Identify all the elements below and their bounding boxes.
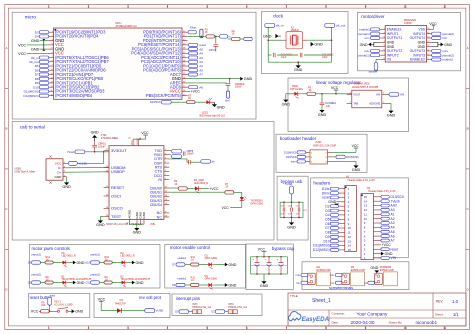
svg-text:A: A [5, 46, 7, 50]
Aref pull resistor [225, 91, 230, 102]
enable indicator D1: flag D7, resistor R11, LED D1 [172, 255, 237, 270]
header INT1 HDR-M-2.54_1x1 with flag D3 [175, 303, 212, 313]
net flag clk_in (MCU left pin) [31, 56, 49, 60]
diode D3 7440CTW [115, 299, 145, 313]
svg-text:GND: GND [31, 39, 40, 43]
net flag m1+ (L293D left) [364, 49, 380, 53]
svg-text:10K: 10K [41, 304, 46, 307]
svg-text:11: 11 [443, 326, 446, 330]
svg-text:24pF: 24pF [281, 56, 287, 59]
net flag D13/SCK (ICSP pin3) [286, 155, 306, 159]
svg-text:GND: GND [133, 231, 142, 235]
net flag A6 (MCU right pin) [188, 85, 204, 89]
svg-text:15: 15 [348, 248, 352, 252]
svg-text:mpower: mpower [369, 71, 378, 74]
svg-text:pwma(1): pwma(1) [32, 254, 42, 257]
svg-text:GND: GND [387, 113, 396, 117]
svg-text:GND: GND [294, 68, 303, 72]
section box: reset button [29, 293, 90, 317]
svg-text:m1+: m1+ [296, 274, 301, 277]
clock ground bottom [268, 55, 331, 72]
svg-text:2020-04-30: 2020-04-30 [351, 320, 375, 325]
svg-text:VCC: VCC [98, 297, 106, 301]
net flag D7 (MCU left pin) [35, 73, 49, 77]
svg-text:GND: GND [31, 48, 40, 52]
svg-text:Date:: Date: [332, 320, 339, 324]
header INT0 HDR-M-2.54_1x1 with flag D2 [211, 303, 247, 313]
net flag A4 (MCU right pin) [188, 52, 204, 56]
bypass usb ground [287, 217, 296, 229]
net flag VIN [387, 93, 404, 97]
regulator U3 LM1117MPX-5.0/NOPB [347, 82, 387, 107]
svg-text:LED-0603_R: LED-0603_R [194, 182, 209, 185]
svg-text:EasyEDA: EasyEDA [302, 316, 330, 323]
date row [332, 320, 438, 325]
net flag A6 (header H2) [381, 234, 395, 238]
svg-text:RESET: RESET [111, 185, 125, 190]
header H1 GND pin [328, 200, 339, 206]
bypass cap ground [260, 274, 269, 288]
svg-text:niconoob1: niconoob1 [416, 320, 438, 325]
svg-text:1K: 1K [191, 279, 194, 282]
ICSP GND wire [333, 161, 361, 172]
Sheet 1/1 [435, 312, 459, 317]
svg-text:TITLE:: TITLE: [290, 294, 299, 298]
section box: motordriver [358, 13, 461, 71]
VCC source for protection diode [98, 297, 117, 310]
net flag mpower (VS pin) [369, 60, 381, 74]
svg-text:rev volt prot: rev volt prot [139, 295, 162, 300]
svg-text:motor enable control: motor enable control [170, 245, 210, 250]
AREF capacitor C8AREF 100nF [188, 79, 245, 91]
svg-text:HDR-M-2.54_1x1: HDR-M-2.54_1x1 [192, 306, 212, 309]
section box: bypass cap [246, 244, 295, 290]
svg-text:EXtxs: EXtxs [190, 26, 197, 29]
net flag reset (MCU right pin) [188, 43, 206, 47]
svg-text:D12(MISO): D12(MISO) [284, 151, 297, 154]
FTDI VCC VCCIO supply [128, 131, 149, 146]
svg-text:D11(MOSI): D11(MOSI) [346, 156, 359, 159]
net flag D12(MISO) (ICSP pin1) [284, 151, 306, 155]
svg-text:0603Yellow light 90-110: 0603Yellow light 90-110 [199, 115, 225, 118]
svg-text:VUSB: VUSB [156, 309, 163, 313]
net flag A1 (header H2) [381, 212, 395, 216]
net flag m2+ (L293D right) [432, 49, 449, 53]
svg-text:m1-: m1- [365, 36, 370, 40]
svg-text:1/1: 1/1 [453, 312, 459, 317]
svg-text:1K: 1K [188, 97, 191, 100]
net flag m2- (L293D right) [432, 36, 448, 40]
svg-text:D12(MISO): D12(MISO) [313, 248, 330, 252]
MCU GND wire to ground (right) [188, 77, 253, 81]
net flag D10 (header H1) [324, 239, 339, 243]
svg-text:K2-3.6-6.1_SMD: K2-3.6-6.1_SMD [55, 304, 73, 307]
net flag D6 (MCU left pin) [35, 68, 49, 72]
svg-text:GND: GND [287, 225, 296, 229]
MCU pin names and numbers [48, 30, 188, 98]
section box: screw terminals [302, 262, 409, 290]
net flag A2 (header H2) [381, 217, 395, 221]
svg-text:VIN: VIN [400, 94, 404, 97]
svg-text:PB5(SCK/PCINT5): PB5(SCK/PCINT5) [146, 93, 182, 98]
svg-text:screwterminals: screwterminals [329, 286, 353, 290]
net flag A7 (MCU right pin) [188, 73, 204, 77]
EasyEDA logo [288, 311, 329, 322]
svg-text:m2-: m2- [330, 282, 334, 285]
motor driver U2 L293D [385, 18, 426, 62]
svg-text:OSCO: OSCO [111, 206, 123, 211]
svg-text:LED-0603_R: LED-0603_R [62, 255, 76, 258]
svg-text:100nF: 100nF [187, 153, 195, 156]
regulator ground [387, 103, 396, 117]
svg-text:GND: GND [77, 281, 85, 285]
screw terminal POWERM EX500V-02P [364, 266, 397, 286]
svg-text:VCCIO: VCCIO [137, 138, 139, 145]
net flag D11(MOSI) (ICSP pin4) [333, 155, 359, 159]
net flag D4 (header H1) [325, 213, 338, 217]
svg-text:OPH-G36G: OPH-G36G [250, 202, 263, 205]
net flag pwmb(2) (L293D right) [432, 53, 454, 57]
svg-text:1.0: 1.0 [452, 299, 459, 304]
net flag A1 (MCU right pin) [188, 64, 204, 68]
svg-text:OSCI: OSCI [111, 193, 121, 198]
ground symbol left of crystal [263, 34, 281, 39]
svg-text:.8-BL: .8-BL [150, 223, 156, 226]
svg-text:D-: D- [58, 166, 61, 170]
section box: clock [262, 12, 349, 74]
dtr series capacitor and flag [169, 159, 214, 165]
net flag 7Vusb [67, 150, 109, 154]
section box: rev volt prot [94, 293, 170, 317]
pwm indicator D2 (row1 right): flag D10, resistor R10, LED D2 [85, 252, 143, 267]
MCU left GND/VCC connections [18, 39, 47, 56]
section box: bootloader header [276, 134, 367, 172]
pwm indicator B2 (row2 right): flag D11, resistor R9, LED B2 [86, 274, 151, 288]
svg-text:m1-: m1- [296, 282, 300, 285]
svg-text:TEST: TEST [111, 214, 122, 219]
svg-text:B: B [5, 127, 7, 131]
svg-text:GND: GND [260, 284, 269, 288]
net flag reset (header H1) [322, 196, 338, 200]
title text Sheet_1 [290, 294, 331, 304]
svg-text:motordriver: motordriver [361, 14, 385, 19]
svg-text:GND: GND [136, 281, 144, 285]
ICSP VCC wire [333, 144, 360, 152]
svg-text:headers: headers [313, 180, 330, 185]
svg-text:A7: A7 [391, 239, 395, 243]
LED1 indicator circuit with resistor R2 [150, 94, 225, 117]
USB data wires [67, 168, 109, 173]
resistor R9 10K with VCC [31, 302, 55, 314]
section box: linear voltage regulator [288, 78, 409, 132]
net flag D3 (MCU left pin) [35, 30, 49, 34]
svg-text:reset: reset [391, 247, 398, 251]
net flag A0 (header H2) [381, 208, 395, 212]
net flag A3 (header H2) [381, 221, 395, 225]
enable indicator D4: flag D8, resistor R12, LED D4 [172, 275, 237, 290]
svg-text:AGND: AGND [128, 209, 132, 219]
svg-text:REV:: REV: [436, 300, 443, 304]
MCU U1 ATMEGA328P-AU [54, 21, 183, 100]
header H2 Header-Male-2.54_1x15 [361, 187, 396, 260]
net flag pwma(1) (L293D left) [358, 32, 380, 36]
net flag D9 (header H1) [325, 235, 338, 239]
power LED PWR OPH-G36G [290, 85, 303, 99]
svg-text:LINEAR_REG: LINEAR_REG [354, 82, 370, 85]
net flag A7 (header H2) [381, 239, 395, 243]
pwm indicator B1 (row2 left): flag D3, resistor R8, LED B1 [28, 274, 92, 288]
net flag 7Vusb (header H2) [381, 199, 400, 203]
VCC feed into regulator [331, 86, 352, 95]
svg-text:enable1: enable1 [178, 257, 187, 260]
svg-text:A7: A7 [199, 73, 203, 77]
capacitor CCLOCK1 24pF [274, 53, 293, 59]
svg-text:reset: reset [291, 160, 297, 163]
ground left of power LED [282, 94, 295, 107]
svg-text:Header-Male-2.54_1x15: Header-Male-2.54_1x15 [368, 190, 396, 193]
svg-text:+VCC: +VCC [191, 90, 201, 94]
svg-text:reset: reset [50, 295, 56, 298]
svg-text:VCC: VCC [141, 131, 149, 135]
svg-text:bypass cap: bypass cap [272, 246, 295, 251]
net flag D6 (header H1) [325, 222, 338, 226]
svg-text:GND: GND [217, 106, 225, 110]
net flag VIN (header H2) [381, 256, 397, 260]
net flag D2 (header H1) [325, 204, 338, 208]
section box: motor enable control [165, 244, 246, 288]
svg-text:D13/SCK: D13/SCK [150, 100, 161, 104]
svg-text:usb to serial: usb to serial [20, 125, 45, 130]
svg-text:ATMEGA328P-AU: ATMEGA328P-AU [116, 24, 137, 28]
svg-text:GND: GND [136, 261, 144, 265]
svg-text:clock: clock [273, 13, 284, 18]
svg-text:1K: 1K [309, 89, 312, 92]
svg-text:reset: reset [322, 196, 329, 200]
net flag D1/tx (header H1) [322, 187, 339, 191]
net flag D3 (header H1) [325, 209, 338, 213]
svg-text:VCC: VCC [55, 161, 62, 165]
header H2 +VCC pin [382, 243, 392, 247]
L293D left ground [360, 42, 381, 46]
net flag D13/SCK (header H2) [381, 195, 405, 199]
REV 1.0 [436, 299, 459, 304]
svg-text:EX500V-02P: EX500V-02P [317, 269, 332, 272]
svg-text:enable2: enable2 [178, 277, 187, 280]
svg-text:dtr: dtr [212, 159, 215, 163]
svg-text:LM1117MPX-5.0/NOPB: LM1117MPX-5.0/NOPB [352, 86, 379, 89]
section box: interrupt pins [172, 294, 262, 316]
svg-text:NC: NC [157, 215, 163, 219]
svg-text:pwmb(2): pwmb(2) [91, 274, 101, 277]
svg-text:DKVrs: DKVrs [209, 49, 217, 52]
company row [332, 311, 388, 316]
svg-text:CU: CU [304, 210, 308, 212]
net flag m1- (L293D left) [365, 36, 380, 40]
svg-text:FT232RL-REEL: FT232RL-REEL [101, 137, 119, 140]
svg-text:GND: GND [282, 102, 291, 106]
reset pull-up network R3 R4 Ra and DTR cap [188, 26, 253, 52]
capacitor CLINREG 1uF [318, 93, 336, 117]
net flag D5 (MCU left pin) [35, 64, 49, 68]
capacitor CCLOCK2 24pF [300, 53, 302, 57]
svg-text:EX500V-02P: EX500V-02P [380, 269, 395, 272]
net flag D12(MISO) (header H1) [313, 248, 339, 252]
svg-text:GND: GND [75, 310, 83, 314]
net flag D11(MOSI) (MCU left pin) [24, 90, 49, 94]
svg-text:VCC: VCC [352, 144, 360, 148]
section box: usb to serial [12, 122, 274, 241]
net flag reset (header H2) [381, 247, 398, 251]
net flag A5 (MCU right pin) [188, 47, 204, 51]
resistor R5 1K [302, 87, 336, 96]
svg-text:m2+: m2+ [330, 274, 335, 277]
capacitor CBP5 100nF [183, 150, 194, 156]
svg-text:D12(MISO): D12(MISO) [23, 94, 38, 98]
svg-text:CBUS4: CBUS4 [150, 203, 162, 207]
reset button ground [72, 309, 84, 313]
svg-text:VCC: VCC [258, 248, 266, 252]
svg-text:USBDP: USBDP [111, 169, 125, 174]
svg-text:pwmb(1): pwmb(1) [358, 53, 370, 57]
net flag D4 (MCU left pin) [35, 35, 49, 39]
svg-text:1K: 1K [191, 259, 194, 262]
section box: micro [12, 12, 256, 119]
ground symbol right of crystal [311, 42, 323, 47]
net flag enable2 (L293D right) [432, 58, 454, 62]
svg-text:Drawn By:: Drawn By: [389, 320, 403, 324]
svg-text:GND: GND [314, 43, 323, 47]
bypass capacitor bank C4 C5 C6 [251, 256, 288, 275]
svg-text:TAB: TAB [353, 102, 358, 105]
USB1 ground [62, 177, 71, 189]
net flag clk_out (MCU left pin) [29, 60, 49, 64]
svg-text:Sheet_1: Sheet_1 [312, 298, 331, 304]
svg-text:GND: GND [228, 263, 236, 267]
svg-text:GND: GND [263, 35, 272, 39]
svg-text:EX500V-02P: EX500V-02P [351, 269, 366, 272]
svg-text:RI: RI [158, 178, 162, 182]
net flag pwmb(1) (L293D left) [358, 53, 380, 57]
screw terminal M1 EX500V-02P [296, 266, 332, 286]
svg-text:GND: GND [77, 261, 85, 265]
svg-text:LED-0603_R: LED-0603_R [121, 255, 135, 258]
crystal X2 16MHz [281, 25, 308, 48]
AVCC connection +VCC [188, 90, 201, 94]
FTDI ground connections [96, 217, 144, 235]
svg-text:interrupt pins: interrupt pins [176, 296, 200, 301]
tx rx net flags at FTDI [169, 149, 181, 158]
L293D right ground [432, 42, 453, 46]
svg-text:D4: D4 [35, 35, 39, 39]
svg-text:enable2: enable2 [442, 58, 453, 62]
svg-text:USB-Type A_Male: USB-Type A_Male [15, 171, 36, 174]
svg-text:D13/SCK: D13/SCK [286, 156, 297, 159]
net flag D8 (header H1) [325, 231, 338, 235]
net flag VUSB (rev volt prot) [145, 309, 163, 313]
FTDI right pins [150, 149, 170, 219]
svg-text:pwmb(1): pwmb(1) [91, 254, 101, 257]
svg-text:1K: 1K [225, 185, 228, 188]
svg-text:VIN: VIN [391, 256, 397, 260]
connector ICSP HDR-IDC-2.54-2X3P [305, 141, 337, 164]
svg-text:3V3OUT: 3V3OUT [111, 148, 127, 153]
svg-text:Header-Male-2.54_1x15: Header-Male-2.54_1x15 [348, 179, 376, 182]
header H2 GND pin [381, 252, 393, 256]
svg-text:GND: GND [318, 113, 327, 117]
svg-text:D10: D10 [85, 262, 90, 265]
L293D pin names and stubs [380, 28, 431, 62]
svg-text:1K: 1K [205, 31, 208, 34]
screw terminal M2 EX500V-02P [330, 266, 366, 286]
svg-text:A6: A6 [199, 85, 203, 89]
svg-text:micro: micro [25, 15, 37, 20]
svg-text:motor pwm controls: motor pwm controls [32, 246, 71, 251]
section box: headers [311, 178, 409, 258]
svg-text:VCC: VCC [331, 86, 339, 90]
net flag D12(MISO) (MCU left pin) [23, 94, 48, 98]
svg-text:VIN: VIN [376, 93, 380, 96]
net flag clk_out [325, 24, 346, 28]
net flag Aref (header H2) [381, 204, 397, 208]
net flag A5 (header H2) [381, 230, 395, 234]
section box: bypass usb [277, 176, 308, 240]
svg-text:VCC: VCC [429, 22, 437, 26]
capacitor CCLOCK2 labels [322, 53, 334, 59]
svg-text:24pF: 24pF [322, 56, 328, 59]
svg-text:pwma(2): pwma(2) [32, 274, 42, 277]
svg-text:OPH-G36G: OPH-G36G [290, 88, 303, 91]
net flag clk_in [265, 24, 284, 28]
FTDI left pins [104, 148, 128, 219]
fuse VL1SB [67, 151, 105, 165]
svg-text:GND: GND [352, 168, 361, 172]
svg-text:+VCC: +VCC [209, 187, 219, 191]
net flag VUSB vertical [285, 182, 293, 202]
svg-text:1K: 1K [174, 183, 177, 186]
net flag D0/rx (header H1) [322, 191, 339, 195]
svg-text:GND: GND [360, 43, 368, 47]
svg-text:L293D: L293D [404, 21, 412, 25]
net flag pwma(2) (L293D right) [432, 32, 454, 36]
svg-text:HDR-M-2.54_1x1: HDR-M-2.54_1x1 [228, 306, 248, 309]
net flag D11(MOSI) (header H1) [313, 244, 338, 248]
svg-text:100nF: 100nF [98, 145, 106, 148]
net flag D7 (header H1) [325, 226, 338, 230]
FTDI bottom pins AGND GND [106, 209, 156, 226]
svg-text:Company:: Company: [332, 312, 345, 316]
svg-text:Sheet:: Sheet: [435, 312, 444, 316]
svg-text:1K: 1K [232, 33, 235, 36]
svg-text:VCC: VCC [18, 43, 26, 47]
svg-text:Your Company: Your Company [357, 311, 388, 316]
svg-text:(PCINT4/MISO)PB4: (PCINT4/MISO)PB4 [55, 93, 93, 98]
net flag enable1 (L293D left) [359, 28, 380, 32]
svg-text:VUSB: VUSB [285, 182, 292, 186]
svg-text:clk_in: clk_in [276, 24, 284, 28]
net flag reset vertical [48, 295, 56, 313]
svg-text:A: A [467, 46, 469, 50]
svg-text:ADJ/GND: ADJ/GND [369, 102, 380, 105]
capacitor CBP10 100nF with ground [91, 131, 120, 153]
svg-text:GND: GND [62, 185, 71, 189]
pwm indicator D5 (row1 left): flag D9, resistor R14, LED D5 [28, 252, 85, 267]
USB connector USB1 USB-Type A_Male [15, 155, 67, 183]
svg-text:D11: D11 [86, 282, 91, 285]
bypass cap VCC [258, 248, 267, 257]
svg-text:GND: GND [444, 43, 452, 47]
net flag reset (ICSP pin5) [291, 160, 306, 164]
svg-text:GND: GND [370, 266, 378, 270]
